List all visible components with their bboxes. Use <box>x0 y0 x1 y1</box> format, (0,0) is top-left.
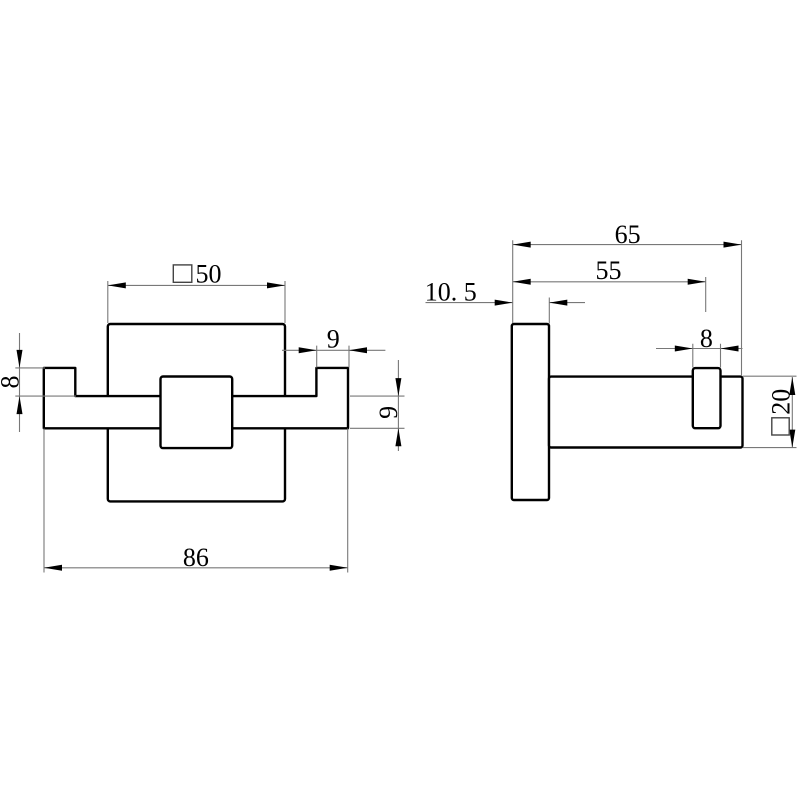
dim 8 side line <box>656 348 743 350</box>
svg-text:9: 9 <box>374 406 403 419</box>
dim 65 line <box>513 244 742 246</box>
arrows dim 86 <box>44 565 62 571</box>
dim 9 right extension lines <box>350 396 405 428</box>
dim 9 top line <box>282 349 385 351</box>
arrows dim 9 right (outside) <box>395 378 401 396</box>
dim 55 extension line <box>705 277 707 312</box>
dim 8 side extension lines <box>693 344 721 368</box>
svg-text:9: 9 <box>327 325 340 354</box>
dim 9 right line <box>397 360 399 451</box>
dim 9 top extension lines <box>317 346 349 368</box>
dim 55 line <box>513 281 706 283</box>
front-view wall plate <box>108 324 285 501</box>
svg-text:20: 20 <box>767 389 796 415</box>
dim 10.5 leader lines <box>426 302 586 304</box>
dim 20 line <box>791 377 793 448</box>
dim 86 extension lines <box>44 429 348 573</box>
arrows dim 9 top (outside) <box>299 347 317 353</box>
dim 8 left line <box>19 333 21 432</box>
front-view center block <box>161 377 233 449</box>
dim 10.5 extension line <box>548 298 550 324</box>
dim 50 line <box>108 284 285 286</box>
side-view hook post <box>693 368 721 428</box>
arrows dim 50 <box>108 282 126 288</box>
side-view wall plate <box>512 324 549 500</box>
svg-text:55: 55 <box>596 256 622 285</box>
svg-text:8: 8 <box>700 324 713 353</box>
arrows dim 8 side (outside) <box>675 346 693 352</box>
arrows dim 10.5 (outside) <box>495 300 513 306</box>
dim 20 extension lines <box>743 376 797 447</box>
arrows dim 65 <box>513 242 531 248</box>
dim 65 extension lines <box>513 240 742 376</box>
side-view arm <box>549 377 743 448</box>
svg-text:65: 65 <box>615 220 641 249</box>
arrows dim 8 left (outside) <box>17 350 23 368</box>
svg-text:8: 8 <box>0 376 25 389</box>
arrows dim 55 <box>513 279 531 285</box>
dim 8 left extension lines <box>15 368 76 396</box>
text square-50 <box>173 265 192 282</box>
dim 86 line <box>44 567 348 569</box>
svg-text:10. 5: 10. 5 <box>425 278 477 307</box>
arrows dim 20 <box>789 377 795 395</box>
svg-text:50: 50 <box>196 260 222 289</box>
svg-text:86: 86 <box>183 543 209 572</box>
dim 50 extension lines <box>108 281 285 323</box>
front-view hook bar with end tabs <box>44 368 348 428</box>
